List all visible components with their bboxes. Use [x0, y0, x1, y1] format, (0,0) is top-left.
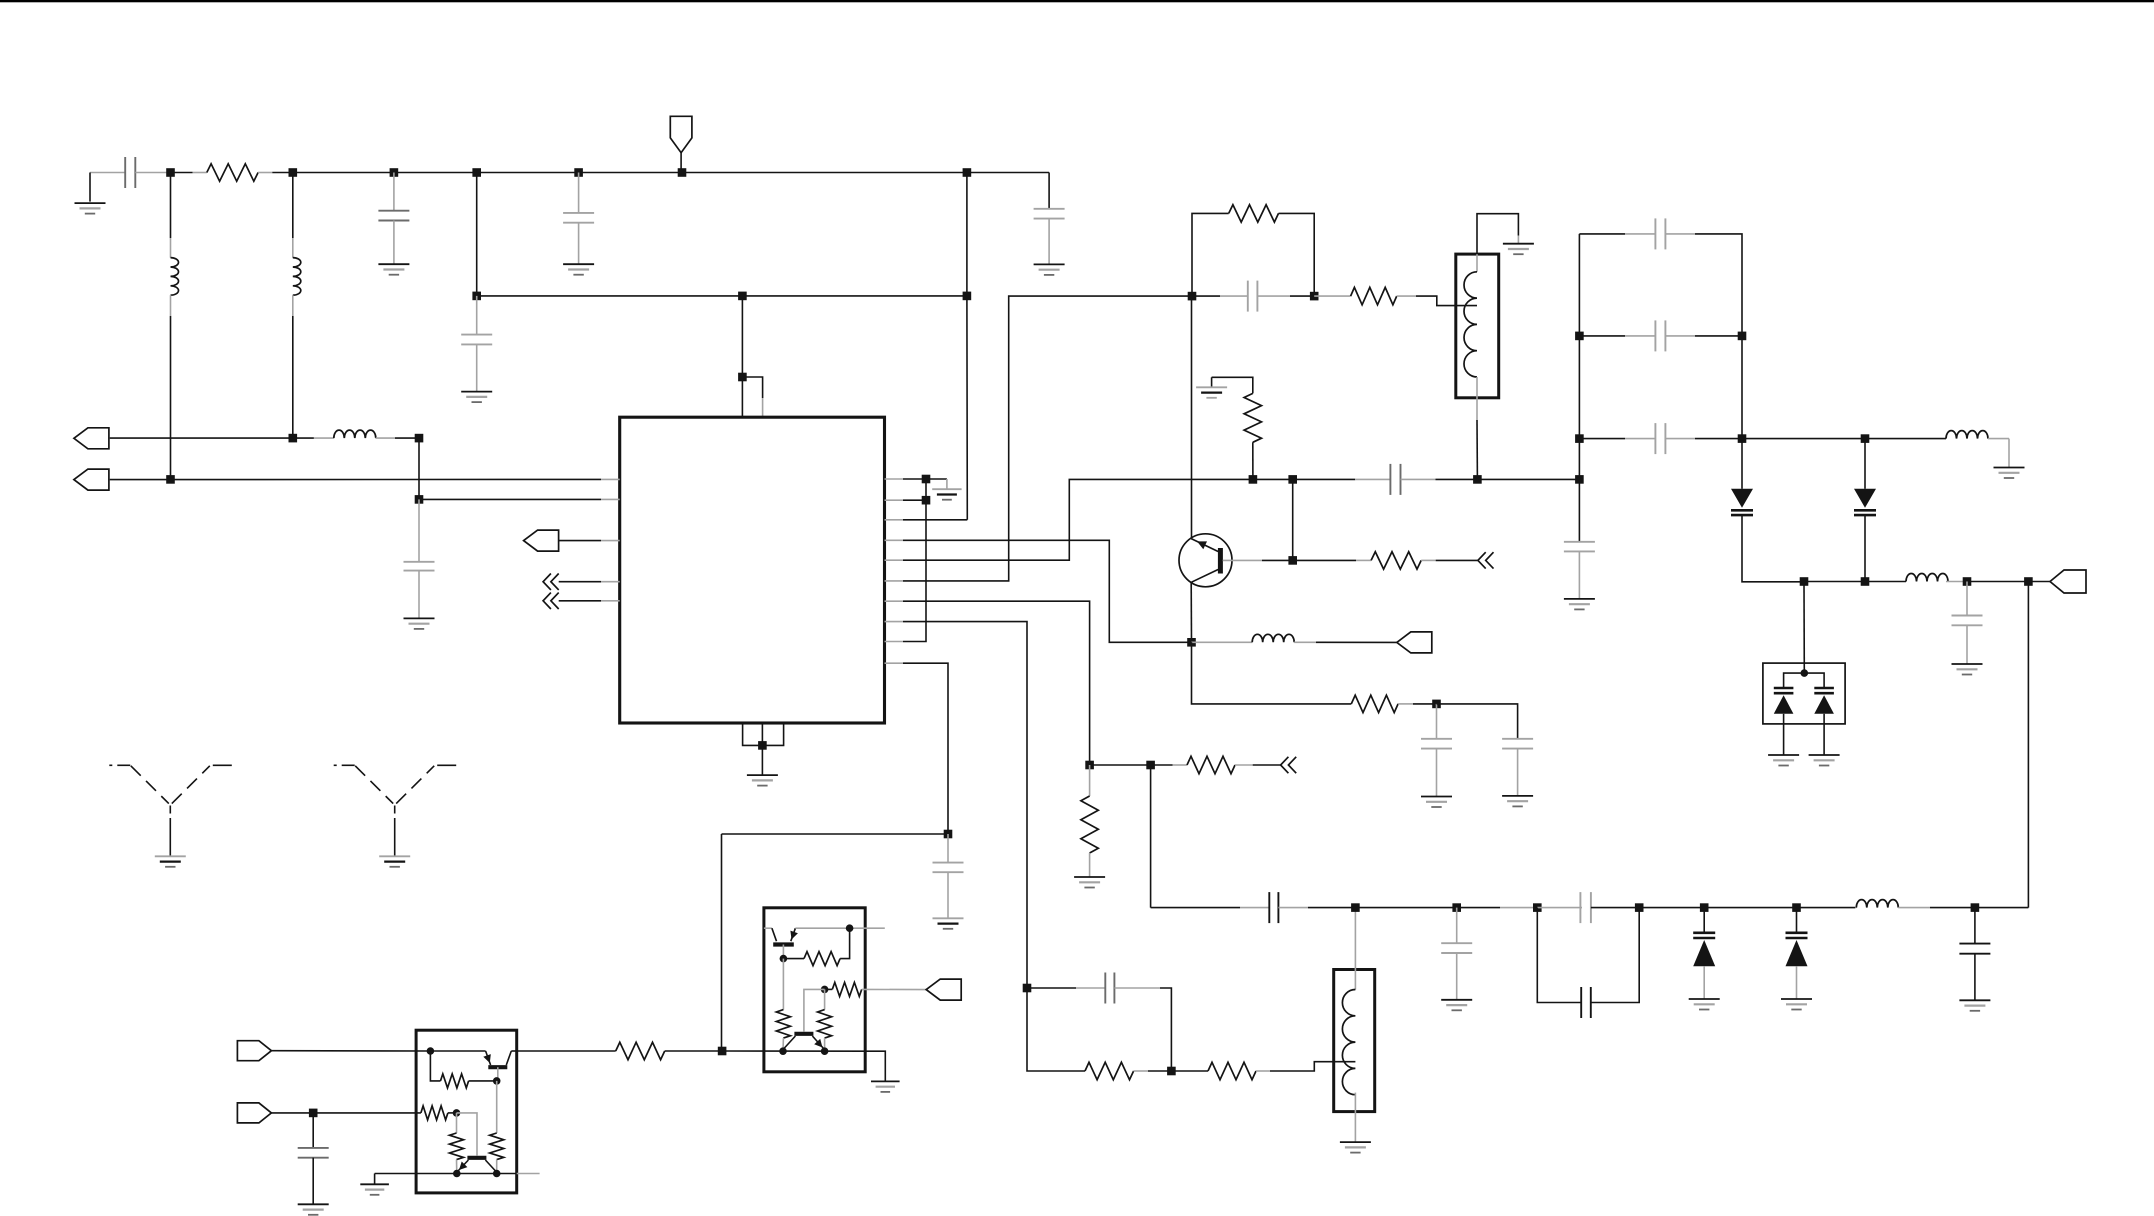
- wire C2 gnd stem: [393, 221, 395, 265]
- wire G8 stem: [946, 479, 948, 489]
- wire DV right: [1804, 673, 1824, 687]
- transistor Q2b arrow: [459, 1162, 467, 1171]
- wire 765 row: [1090, 764, 1151, 766]
- wire Q3 rail ext: [865, 1051, 885, 1081]
- capacitor C8: [1248, 281, 1258, 312]
- wire R11 to J: [665, 1050, 722, 1052]
- wire Q1 emitter diag: [1191, 539, 1218, 552]
- capacitor C23: [298, 1148, 329, 1158]
- varactor D2: [1854, 489, 1876, 515]
- wire R6 lead r: [1398, 703, 1413, 705]
- wire tap: [1416, 296, 1477, 306]
- wire T1 to row479: [1476, 420, 1478, 479]
- wire IC top pin2 stub: [762, 398, 764, 417]
- junction IC top pin: [738, 373, 747, 382]
- wire Q3a base down: [782, 945, 784, 959]
- ground G14: [1074, 877, 1105, 888]
- wire IC bot pin a: [743, 723, 763, 745]
- wire row704 r: [1437, 704, 1518, 739]
- wire L4 to P6: [1316, 641, 1397, 643]
- wire to IC pin499: [419, 498, 601, 500]
- wire Q2b base: [457, 1113, 478, 1156]
- junction pin500: [922, 496, 931, 505]
- junction parcap l: [1533, 903, 1542, 912]
- wire R4 down: [1252, 442, 1254, 479]
- wire bank row2 r: [1695, 335, 1742, 337]
- port P5: [237, 1103, 271, 1123]
- junction row642: [1187, 638, 1196, 647]
- transistor Q3b arrow: [814, 1039, 822, 1048]
- wire Q3a coll diag: [772, 928, 777, 941]
- wire bank row1 r: [1695, 234, 1742, 439]
- wire RC top l: [1192, 213, 1229, 296]
- junction RC out: [1310, 292, 1319, 301]
- junction R11 out: [718, 1047, 727, 1056]
- wire pin621 stub: [885, 621, 904, 623]
- capacitor C11: [1502, 739, 1533, 749]
- wire parcap top r: [1591, 907, 1639, 909]
- wire 721 down: [721, 834, 723, 1051]
- wire R5 lead r: [1421, 559, 1436, 561]
- wire L7 gnd drop: [2008, 439, 2010, 468]
- junction V4: [1792, 903, 1801, 912]
- wire gnd stub to C1: [90, 172, 125, 174]
- junction row581 d: [2024, 577, 2033, 586]
- wire V4 gnd: [1796, 966, 1798, 999]
- wire rail2: [477, 295, 967, 297]
- wire C9 lead r: [1401, 478, 1436, 480]
- wire L1 top: [170, 173, 172, 239]
- wire bank row3 r: [1695, 438, 1865, 440]
- resistor R3: [1351, 287, 1397, 304]
- wire Q3b coll diag: [812, 1036, 824, 1049]
- wire C5 gnd stem: [476, 344, 478, 391]
- wire row581 b: [1967, 581, 2050, 583]
- junction rail1-J6: [678, 168, 687, 177]
- wire row907 a: [1151, 907, 1240, 909]
- wire row907 c: [1639, 907, 1855, 909]
- inductor L4: [1252, 634, 1294, 642]
- wire R13 bot: [496, 1160, 498, 1174]
- capacitor C7: [933, 863, 964, 873]
- ground G13: [1502, 796, 1533, 807]
- wire bank row1 l: [1579, 233, 1625, 235]
- ground G6: [404, 618, 435, 629]
- port P7: [2050, 570, 2086, 593]
- wire rail1 b: [272, 172, 967, 174]
- wire C6 gnd stem: [418, 571, 420, 619]
- resistor R2: [1229, 205, 1279, 222]
- junction RC in: [1188, 292, 1197, 301]
- offpage arrow A3: [1478, 552, 1494, 568]
- wire C17 gnd: [1974, 954, 1976, 1001]
- varactor D5b: [1814, 688, 1834, 714]
- wire Q1 base lead: [1223, 559, 1262, 561]
- wire L5 bot: [1354, 1093, 1356, 1143]
- wire 988 row r: [1160, 988, 1171, 1071]
- ground G11: [1196, 387, 1227, 398]
- wire C3 gnd stem: [578, 223, 580, 265]
- junction row704: [1432, 700, 1441, 709]
- transistor pack Q2 box: [416, 1030, 517, 1193]
- resistor R12: [441, 1074, 469, 1088]
- offpage arrow A2: [543, 593, 559, 609]
- ground G18: [1781, 999, 1812, 1010]
- wire R18 out: [862, 988, 927, 990]
- wire Q2a top: [430, 1050, 485, 1052]
- junction DV: [1801, 669, 1809, 677]
- wire bus cap stem: [1578, 541, 1580, 543]
- junction Q3b node: [821, 986, 829, 994]
- wire A2 pin stub: [601, 600, 620, 602]
- wire Q3b emit diag: [784, 1036, 796, 1049]
- wire DV left: [1784, 673, 1805, 687]
- junction bus-row479: [1575, 475, 1584, 484]
- wire D5a gnd: [1783, 714, 1785, 755]
- port P1 RFIN1: [74, 428, 109, 449]
- wire base drop: [1292, 479, 1294, 560]
- wire T1 coil top gray: [1476, 254, 1478, 272]
- wire R19 bot: [824, 1038, 826, 1051]
- wire Q1c down2: [1192, 642, 1352, 704]
- wire Q1 collector diag: [1191, 570, 1218, 583]
- wire V4 stem: [1796, 908, 1798, 933]
- wire 765 down: [1150, 765, 1152, 908]
- wire C8 lead r: [1257, 295, 1290, 297]
- capacitor C4: [1034, 209, 1065, 219]
- wire P2 pin stub: [601, 478, 620, 480]
- capacitor C13: [1269, 892, 1278, 923]
- wire R17 bot: [782, 1038, 784, 1051]
- wire Q3a in: [764, 927, 772, 929]
- wire bus: [1578, 234, 1580, 542]
- wire J down to pin2row: [418, 438, 420, 499]
- junction parcap r: [1635, 903, 1644, 912]
- junction 907-c17: [1971, 903, 1980, 912]
- page top border: [0, 0, 2154, 2]
- wire L2 lead t: [292, 238, 294, 258]
- wire Q3b base link: [804, 989, 825, 1031]
- wire pin520: [903, 519, 967, 521]
- wire pin500 stub: [885, 499, 904, 501]
- wire bank row3 l: [1579, 438, 1625, 440]
- wire C22 gnd: [1966, 625, 1968, 664]
- junction row581 b: [1861, 577, 1870, 586]
- wire Q2b coll diag: [485, 1160, 496, 1172]
- wire IC bot pin c: [762, 723, 783, 745]
- ground G2: [378, 264, 409, 275]
- junction L3 out: [415, 434, 424, 443]
- wire R9 lead r: [1134, 1070, 1148, 1072]
- capacitor C15: [1580, 892, 1591, 923]
- ground G5: [461, 392, 492, 403]
- wire Q3 rail: [722, 1050, 865, 1052]
- wire V1 drop: [1741, 439, 1743, 489]
- wire C22 stem: [1966, 582, 1968, 616]
- transistor Q2a arrow: [483, 1054, 491, 1063]
- junction Q2 rail a: [453, 1170, 461, 1178]
- wire C9 lead l: [1355, 478, 1390, 480]
- wire pin641 stub: [885, 641, 904, 643]
- wire C7 gnd stem: [947, 872, 949, 918]
- ground G23: [1768, 755, 1799, 766]
- inductor L3: [334, 430, 376, 438]
- wire pin601: [903, 601, 1090, 765]
- port P3b: [926, 979, 961, 1000]
- inductor L7: [1946, 431, 1988, 439]
- wire L6 lead l: [1855, 907, 1856, 909]
- wire R10 lead r: [1256, 1070, 1270, 1072]
- resistor R9: [1085, 1062, 1134, 1079]
- IC U1: [620, 417, 885, 723]
- wire pin560: [903, 479, 1355, 560]
- junction Q2b base node: [453, 1109, 461, 1117]
- wire R9 to J: [1148, 1070, 1171, 1072]
- junction 907-c14: [1452, 903, 1461, 912]
- junction Q2a in: [427, 1047, 435, 1055]
- wire C2 stem: [393, 173, 395, 211]
- junction 988: [1023, 984, 1032, 993]
- ground G25: [155, 856, 186, 867]
- junction Q3a out: [846, 924, 854, 932]
- junction rail1-J3: [390, 168, 399, 177]
- junction rail1-J1: [166, 168, 175, 177]
- wire rail1 c: [967, 172, 1049, 174]
- wire rail1 corner down: [1048, 173, 1050, 209]
- junction V3: [1700, 903, 1709, 912]
- ground G10: [1503, 244, 1534, 255]
- junction Q2 rail b: [493, 1170, 501, 1178]
- wire P3 pin stub: [601, 540, 620, 542]
- transistor Q2b base bar: [467, 1156, 486, 1160]
- wire V3 gnd: [1703, 966, 1705, 999]
- wire VCC stem: [680, 153, 682, 173]
- resistor R15: [450, 1133, 464, 1160]
- inductor L6: [1856, 900, 1898, 908]
- resistor R14: [421, 1106, 448, 1120]
- wire L5 top: [1354, 908, 1356, 990]
- ground G27: [298, 1204, 329, 1215]
- ground G4: [1034, 264, 1065, 275]
- ground G26: [379, 856, 410, 867]
- offpage arrow A4: [1281, 757, 1297, 773]
- wire P4 to box: [271, 1050, 430, 1052]
- wire G28 stem: [374, 1174, 376, 1185]
- wire C23 stem: [312, 1113, 314, 1148]
- wire Q2a out: [511, 1050, 516, 1052]
- wire C5 stem: [476, 296, 478, 335]
- resistor R5: [1371, 552, 1421, 569]
- wire pin601 stub: [885, 600, 904, 602]
- wire C14 stem: [1456, 908, 1458, 944]
- wire R12 r: [469, 1080, 497, 1082]
- wire L2 lead b: [292, 295, 294, 316]
- capacitor C19: [1655, 320, 1665, 351]
- wire Q3a emit diag: [791, 928, 796, 941]
- varactor D4: [1786, 933, 1808, 967]
- wire V3 stem: [1703, 908, 1705, 933]
- resistor R11: [616, 1042, 665, 1059]
- ground G17: [1689, 999, 1720, 1010]
- wire L4 lead l: [1192, 641, 1253, 643]
- junction rail2-a: [472, 292, 481, 301]
- wire pin479 stub: [885, 478, 904, 480]
- transformer T1 shield: [1456, 254, 1499, 398]
- wire Q2a base down: [497, 1067, 499, 1081]
- wire L4 lead r: [1294, 641, 1316, 643]
- inductor L5 coil: [1342, 990, 1355, 1095]
- capacitor C12: [1105, 973, 1114, 1004]
- junction rail1-J2: [289, 168, 298, 177]
- wire C21 gnd: [1578, 551, 1580, 599]
- inductor L1: [171, 258, 179, 296]
- wire C23 gnd: [312, 1158, 314, 1205]
- capacitor C18: [1655, 218, 1665, 249]
- wire Q2 rail: [375, 1173, 517, 1175]
- wire row438 r: [1865, 438, 1946, 440]
- wire C10 gnd: [1436, 749, 1438, 797]
- inductor L5 shield: [1334, 970, 1375, 1112]
- resistor R7: [1187, 756, 1235, 773]
- transistor Q1 base bar: [1218, 548, 1223, 574]
- wire bank row2 l: [1579, 335, 1625, 337]
- wire Q2a emit diag: [486, 1051, 491, 1065]
- wire R5 to arrow: [1436, 559, 1478, 561]
- wire Q1 collector down: [1190, 582, 1192, 642]
- wire pin663 stub: [885, 662, 904, 664]
- wire V2 drop: [1864, 439, 1866, 489]
- junction rail1-J4: [472, 168, 481, 177]
- antenna ANT2 (dashed): [334, 765, 457, 856]
- wire RC mid l: [1192, 295, 1220, 297]
- wire R7 lead l2: [1173, 764, 1188, 766]
- wire IC top pin2: [742, 377, 762, 398]
- wire tie 479-641: [903, 479, 926, 642]
- wire P2 to IC: [110, 478, 601, 480]
- wire C17 stem: [1974, 908, 1976, 944]
- wire 834 row: [722, 833, 949, 835]
- wire R13 stem: [496, 1081, 498, 1133]
- wire L1 bot: [170, 316, 172, 479]
- wire A2 to IC: [559, 600, 601, 602]
- wire P1 to L3: [110, 437, 314, 439]
- inductor L8: [1906, 574, 1948, 582]
- wire rail1 a: [171, 172, 193, 174]
- wire L1 lead b: [170, 295, 172, 316]
- junction row438-V2: [1861, 434, 1870, 443]
- wire C12 lead r: [1114, 987, 1160, 989]
- wire 988 row l: [1027, 987, 1076, 989]
- ground G20: [1994, 468, 2025, 479]
- wire R7 lead l: [1151, 764, 1173, 766]
- resistor R19: [818, 1010, 832, 1039]
- junction bank row3 l: [1575, 434, 1584, 443]
- wire pin499 stub: [601, 498, 620, 500]
- ground G15: [1340, 1142, 1371, 1153]
- wire row907 b2: [1500, 907, 1537, 909]
- wire pin500: [903, 499, 926, 501]
- wire R18 lead l: [825, 988, 833, 990]
- junction rail1-J7: [963, 168, 972, 177]
- junction 1071: [1167, 1067, 1176, 1076]
- wire parcap top l: [1537, 907, 1582, 909]
- dual varactor D5 box: [1763, 663, 1845, 724]
- wire pin540: [903, 540, 1192, 642]
- port P4: [237, 1041, 271, 1061]
- junction rail2-c: [963, 292, 972, 301]
- junction rail2-b: [738, 292, 747, 301]
- wire V1 to row: [1742, 515, 1804, 582]
- wire C18 lead l: [1625, 233, 1655, 235]
- resistor R8: [1081, 796, 1098, 853]
- transistor Q3a arrow: [790, 931, 798, 940]
- ground G28: [360, 1184, 389, 1195]
- wire R19 stem: [824, 989, 826, 1009]
- wire R3 lead r: [1397, 295, 1416, 297]
- wire R1 lead r: [258, 172, 272, 174]
- wire R16 lead l: [783, 958, 804, 960]
- ground G19: [1959, 1000, 1990, 1011]
- wire L1 lead t: [170, 238, 172, 258]
- varactor D3: [1693, 933, 1715, 967]
- wire pin663: [903, 663, 948, 834]
- wire row907 d: [1930, 907, 2028, 909]
- transistor Q1 body: [1179, 534, 1232, 587]
- capacitor C10: [1421, 739, 1452, 749]
- wire T1 coil top: [1477, 214, 1518, 254]
- wire pin581 stub: [885, 580, 904, 582]
- resistor R6: [1351, 695, 1398, 712]
- wire R3 lead l: [1314, 295, 1350, 297]
- wire L3 lead l: [314, 437, 334, 439]
- junction T1-row479: [1473, 475, 1482, 484]
- antenna ANT1 (dashed): [109, 765, 232, 856]
- wire parcap loop r: [1591, 908, 1639, 1003]
- junction row581 a: [1800, 577, 1809, 586]
- ground G12: [1421, 797, 1452, 808]
- port P3: [524, 530, 559, 551]
- wire DV drop: [1803, 582, 1805, 674]
- junction 834: [944, 830, 953, 839]
- ground G1: [75, 203, 106, 214]
- wire J7 down: [966, 173, 968, 520]
- wire C13 lead l: [1240, 907, 1269, 909]
- wire P5 row: [271, 1112, 421, 1114]
- junction base row: [1288, 556, 1297, 565]
- wire R10 lead l: [1171, 1070, 1208, 1072]
- wire C13 lead r: [1278, 907, 1308, 909]
- wire R12 lead: [430, 1051, 440, 1081]
- wire R15 bot: [456, 1160, 458, 1174]
- wire 1027 down: [1027, 988, 1085, 1071]
- resistor R17: [776, 1010, 790, 1039]
- ground G24: [1809, 755, 1840, 766]
- inductor L2: [293, 258, 301, 296]
- transistor pack Q3 box: [764, 908, 865, 1072]
- wire 2028 up: [2027, 582, 2029, 908]
- wire L6 lead r: [1898, 907, 1930, 909]
- wire A1 to IC: [559, 581, 601, 583]
- port P6 RFOUT: [1397, 632, 1432, 653]
- wire pin520 stub: [885, 519, 904, 521]
- junction L5 top: [1351, 903, 1360, 912]
- ground G3: [563, 264, 594, 275]
- wire C19 lead r: [1665, 335, 1695, 337]
- wire Q2 rail ext: [517, 1173, 540, 1175]
- wire R7 to arrow: [1253, 764, 1281, 766]
- junction 765b: [1146, 761, 1155, 770]
- junction P2-L1: [166, 475, 175, 484]
